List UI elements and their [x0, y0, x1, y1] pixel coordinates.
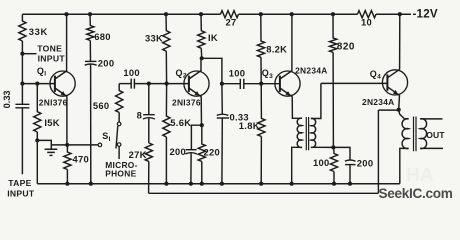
label 1.8K	[239, 120, 260, 131]
wire Q1 base line	[22, 83, 54, 85]
svg-text:HA: HA	[406, 165, 434, 186]
node Q3 collector rail junction	[290, 12, 294, 16]
label 200 (Q2 bypass)	[170, 146, 187, 157]
node T1 primary rail junction	[290, 182, 294, 186]
watermark faint	[406, 165, 434, 186]
svg-text:1.8K: 1.8K	[239, 120, 260, 131]
node tone input junction	[20, 52, 24, 56]
wire supply rail right	[376, 13, 411, 15]
svg-text:10: 10	[361, 16, 372, 27]
node Q2 coupling junction	[220, 82, 224, 86]
node Q3 base divider junction	[259, 82, 263, 86]
svg-text:680: 680	[94, 31, 111, 42]
node 220 bottom junction	[200, 182, 204, 186]
resistor 1.8K (Q3 bias lower)	[258, 84, 265, 184]
label 820	[337, 42, 355, 53]
resistor 27K (feedback)	[145, 143, 152, 193]
wire Q3 collector to rail	[291, 14, 293, 71]
wire T2 secondary bottom lead	[420, 147, 443, 149]
node 8.2K rail junction	[259, 12, 263, 16]
node 1.8K bottom junction	[259, 182, 263, 186]
label -12V	[413, 8, 438, 21]
wire Q1 collector to rail	[66, 14, 68, 71]
label 100 (Q3 coupling)	[229, 67, 246, 78]
wire Q2 collector	[200, 58, 202, 71]
svg-text:TAPE: TAPE	[8, 178, 31, 188]
label Q1	[37, 66, 46, 78]
label 100 (coupling)	[123, 67, 140, 78]
label 2N234A (Q3)	[295, 65, 328, 75]
node 15K top junction	[35, 82, 39, 86]
svg-text:200: 200	[98, 57, 115, 68]
wire T1 secondary bottom lead	[311, 146, 334, 148]
transformer T2 core	[414, 117, 417, 152]
resistor 470 (Q1 emitter)	[64, 145, 71, 184]
node Q1 emitter junction	[65, 143, 69, 147]
svg-text:220: 220	[204, 146, 221, 157]
node Q2 emitter junction	[200, 123, 204, 127]
label TONE INPUT	[37, 43, 65, 63]
svg-text:IK: IK	[208, 32, 218, 43]
node 680 top rail junction	[88, 12, 92, 16]
svg-text:200: 200	[357, 158, 374, 169]
node 0.33-2 bottom junction	[220, 182, 224, 186]
label 10	[361, 16, 372, 27]
label 680	[94, 31, 111, 42]
resistor 100 (Q4 bias lower)	[330, 147, 337, 183]
svg-text:0.33: 0.33	[2, 90, 12, 108]
terminal S1 upper contact	[117, 122, 121, 126]
wire ground rail (bottom)	[37, 183, 400, 185]
svg-text:560: 560	[93, 100, 110, 111]
svg-text:Q3: Q3	[262, 68, 273, 80]
node 470 bottom rail junction	[65, 182, 69, 186]
capacitor 0.33 (tape input coupling C1)	[15, 84, 29, 175]
node 820 rail junction	[331, 12, 335, 16]
wire tone node to Q1 base node	[21, 54, 23, 84]
capacitor 100 (Q2-Q3 coupling)	[222, 79, 280, 89]
svg-text:Q4: Q4	[370, 69, 381, 81]
label S1	[102, 131, 110, 143]
wire microphone stub	[118, 146, 120, 159]
svg-text:SI: SI	[102, 131, 110, 143]
label Q4	[370, 69, 381, 81]
wire Q3 emitter to transformer	[292, 96, 302, 118]
svg-text:2N234A: 2N234A	[295, 65, 328, 75]
label 8.2K	[266, 43, 287, 54]
transistor Q4 2N234A	[382, 69, 407, 95]
transistor Q3 2N234A	[275, 71, 300, 97]
svg-text:INPUT: INPUT	[7, 188, 35, 198]
svg-text:33K: 33K	[145, 33, 163, 44]
svg-text:TONE: TONE	[37, 43, 62, 53]
wire Q2 emitter down	[200, 96, 202, 125]
label 200 (Q4 bypass)	[357, 158, 374, 169]
label Q2	[176, 68, 187, 80]
svg-text:5.6K: 5.6K	[170, 117, 191, 128]
node Q2 collector junction	[200, 56, 204, 60]
label 470	[73, 154, 90, 165]
label Q3	[262, 68, 273, 80]
switch S1 arm	[116, 126, 118, 149]
wire ground node to bottom rail	[36, 140, 38, 183]
svg-text:SeekIC.com: SeekIC.com	[379, 186, 453, 201]
wire tone input stub	[22, 53, 37, 55]
label 200 (decoupling)	[98, 57, 115, 68]
resistor 1K (Q2 collector load)	[198, 14, 205, 58]
label 2N1376 (Q2)	[172, 98, 201, 108]
wire Q1 emitter line to switch pole	[51, 144, 98, 146]
resistor 820 (Q4 bias)	[330, 14, 337, 147]
node Q4 collector rail junction	[398, 12, 402, 16]
wire feedback riser	[377, 110, 379, 193]
node 33K/5.6K junction	[165, 82, 169, 86]
label 33K R1	[29, 26, 48, 37]
wire Q4 emitter down	[398, 95, 401, 110]
resistor 8.2K (Q3 bias upper)	[257, 14, 264, 83]
label 5.6K	[170, 117, 191, 128]
svg-text:100: 100	[313, 157, 330, 168]
svg-text:-12V: -12V	[413, 8, 438, 21]
label 8	[137, 110, 143, 121]
node 200-3 bottom junction	[348, 182, 352, 186]
svg-text:33K: 33K	[29, 26, 48, 37]
node 200 bottom rail junction	[89, 182, 93, 186]
svg-text:2NI376: 2NI376	[39, 98, 68, 108]
svg-text:8: 8	[137, 110, 143, 121]
wire emitter to 200 cap	[191, 125, 201, 149]
svg-text:100: 100	[229, 67, 246, 78]
label 1K	[208, 32, 218, 43]
label 33K (Q2)	[145, 33, 163, 44]
resistor 220 (Q2 emitter)	[198, 125, 205, 184]
svg-text:27K: 27K	[129, 149, 147, 160]
wire supply rail middle	[239, 13, 358, 15]
label 0.33 C1 (rotated)	[2, 90, 12, 108]
capacitor 200 (Q4 bias bypass)	[333, 147, 355, 183]
svg-text:OUT: OUT	[426, 130, 445, 140]
wire Q2 base line left corner	[119, 83, 131, 85]
resistor 33K (Q2 bias upper)	[163, 14, 170, 83]
transformer T1 core	[306, 117, 308, 150]
resistor 10 (in supply rail)	[358, 11, 377, 18]
label 220	[204, 146, 221, 157]
capacitor 100 (Q1-Q2 coupling)	[131, 79, 189, 89]
label 27K	[129, 149, 147, 160]
resistor 33K (R1, tone input bias)	[19, 14, 26, 54]
label 27	[225, 16, 236, 27]
transformer T2 primary winding	[402, 119, 409, 149]
capacitor 8 (feedback electrolytic)	[143, 84, 155, 143]
wire T2 secondary top lead	[420, 118, 442, 120]
capacitor 0.33 (tone shaping)	[217, 84, 229, 184]
transformer T1 secondary winding	[311, 118, 316, 147]
node Q1 ground junction	[35, 138, 39, 142]
node 1K rail junction	[199, 12, 203, 16]
watermark SeekIC.com	[379, 186, 453, 201]
label 100 (Q4 bias)	[313, 157, 330, 168]
label 2N234A (Q4)	[362, 97, 395, 107]
wire ground link	[37, 140, 51, 148]
node Q4 emitter junction	[397, 108, 401, 112]
svg-text:2NI376: 2NI376	[172, 98, 201, 108]
svg-text:QI: QI	[37, 66, 46, 78]
label 15K	[44, 117, 60, 128]
node Q1 base left junction	[20, 82, 24, 86]
terminal switch pole circle	[98, 143, 102, 147]
wire Q4 emitter to T2	[399, 110, 409, 119]
wire T1 primary bottom to rail	[292, 147, 302, 183]
wire T1 secondary top to Q4 base line	[311, 83, 321, 118]
label 2N1376 (Q1)	[39, 98, 68, 108]
resistor 560 (mic series)	[116, 84, 123, 123]
capacitor 200 (Q2 emitter bypass)	[185, 150, 197, 184]
terminal S1 lower contact	[117, 143, 121, 147]
svg-text:820: 820	[337, 42, 355, 53]
label MICRO-PHONE	[105, 160, 138, 179]
svg-text:INPUT: INPUT	[38, 54, 66, 64]
svg-text:PHONE: PHONE	[105, 169, 136, 179]
resistor 15K (Q1 base-return)	[34, 84, 41, 141]
wire -12V supply rail (top)	[22, 13, 220, 15]
node Q1 collector rail junction	[64, 12, 68, 16]
wire Q1 emitter down	[66, 96, 68, 145]
wire Q2 collector corner to coupling	[202, 58, 222, 83]
wire Q4 collector to rail	[399, 14, 401, 69]
wire ground rail riser to T2	[400, 148, 409, 183]
transformer T1 primary winding	[297, 118, 302, 147]
svg-text:470: 470	[73, 154, 90, 165]
transistor Q1 2N1376	[50, 71, 75, 97]
svg-text:8.2K: 8.2K	[266, 43, 287, 54]
svg-text:2N234A: 2N234A	[362, 97, 395, 107]
transformer T2 secondary winding	[420, 119, 427, 149]
svg-text:27: 27	[225, 16, 236, 27]
label 560	[93, 100, 110, 111]
resistor 5.6K (Q2 bias lower)	[163, 84, 170, 184]
ground symbol	[45, 149, 58, 155]
label OUT	[426, 130, 445, 140]
svg-text:200: 200	[170, 146, 187, 157]
resistor 27 (in supply rail)	[221, 11, 239, 18]
node 8uF top junction	[147, 82, 151, 86]
transistor Q2 2N1376	[184, 71, 209, 97]
node 5.6K bottom rail junction	[164, 182, 168, 186]
svg-text:Q2: Q2	[176, 68, 187, 80]
wire feedback to Q4 emitter	[378, 109, 398, 111]
capacitor 200 (decoupling electrolytic)	[85, 61, 97, 183]
label 0.33 (shaping)	[230, 111, 249, 122]
node 33K2 rail junction	[164, 12, 168, 16]
wire Q4 base line	[321, 82, 387, 84]
svg-text:I5K: I5K	[44, 117, 60, 128]
node 100 bottom rail junction	[332, 182, 336, 186]
resistor 680 (decoupling)	[87, 14, 94, 61]
wire feedback bottom line	[149, 192, 379, 194]
node 200-2 bottom junction	[189, 182, 193, 186]
svg-text:100: 100	[123, 67, 140, 78]
label TAPE INPUT	[7, 178, 35, 199]
node T1 bias junction	[331, 145, 335, 149]
